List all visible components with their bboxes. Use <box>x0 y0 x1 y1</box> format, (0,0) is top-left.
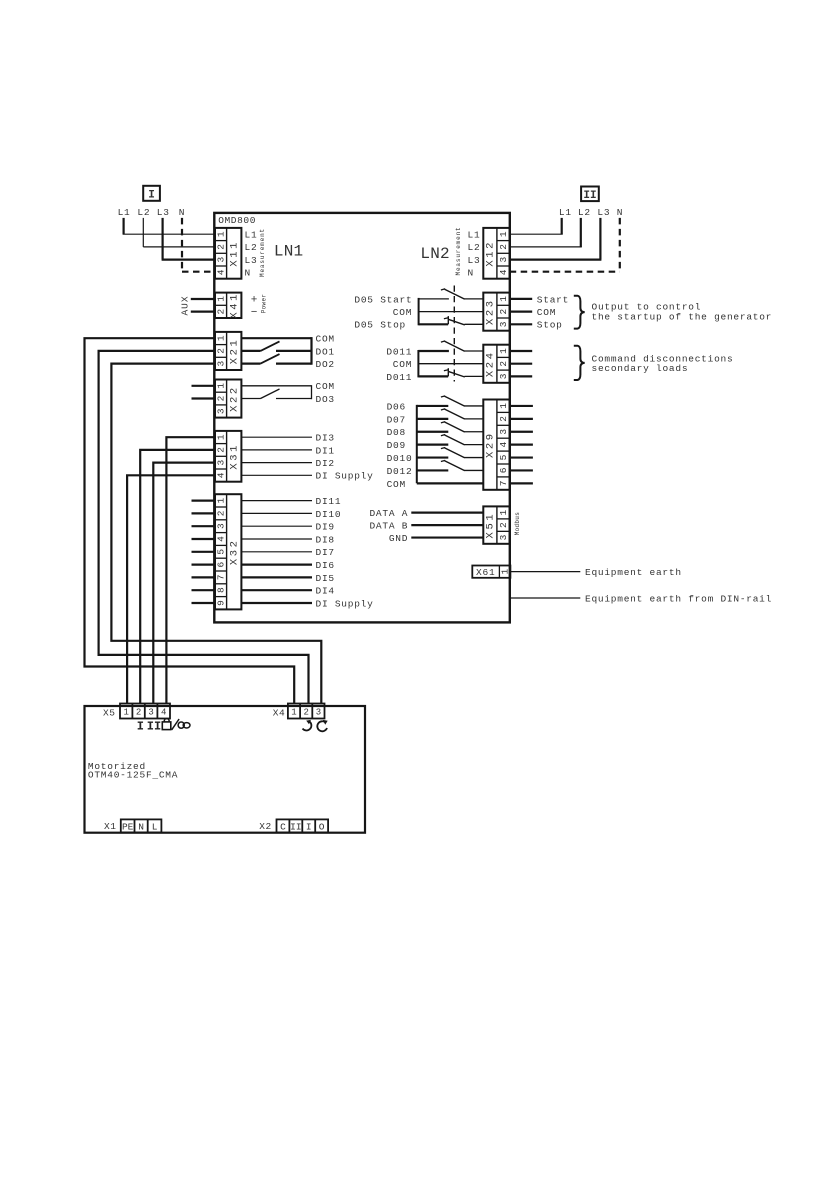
label LN1 <box>274 243 303 261</box>
X24 external stub 1 <box>510 350 533 352</box>
svg-text:4: 4 <box>161 708 166 718</box>
svg-text:DI Supply: DI Supply <box>316 598 374 609</box>
svg-text:secondary loads: secondary loads <box>592 363 689 374</box>
X32 line DI7 <box>241 547 334 558</box>
X29 contact wiring D07 <box>417 418 449 420</box>
mechanical link dashed (X23/X24) <box>453 286 455 382</box>
label D07 (X29) <box>387 414 406 425</box>
svg-text:COM: COM <box>387 479 406 490</box>
svg-text:X2: X2 <box>259 821 271 832</box>
terminal block X22 <box>215 380 241 418</box>
svg-text:X32: X32 <box>228 538 240 565</box>
svg-text:−: − <box>251 307 258 319</box>
svg-text:Stop: Stop <box>537 320 563 331</box>
X51 wire DATA B <box>369 521 483 532</box>
X32 stub DI5 <box>192 576 216 578</box>
X32 stub DI9 <box>192 525 216 527</box>
X51 wire DATA A <box>369 508 483 519</box>
label D011 (bottom) <box>386 372 412 383</box>
X32 line DI5 <box>241 573 334 584</box>
label D010 (X29) <box>387 453 413 464</box>
svg-text:COM: COM <box>316 334 335 345</box>
svg-text:DI8: DI8 <box>316 534 335 545</box>
wire equipment earth <box>510 571 580 573</box>
svg-text:D05 Start: D05 Start <box>354 294 412 305</box>
label OMD800 <box>218 215 256 226</box>
svg-text:2: 2 <box>215 395 226 401</box>
svg-text:DI9: DI9 <box>316 522 335 533</box>
wire L3 to X11-3 <box>162 218 216 260</box>
svg-text:L: L <box>152 822 158 833</box>
svg-text:3: 3 <box>498 534 509 540</box>
AUX label <box>180 295 191 315</box>
X24 bottom contact wiring <box>418 375 448 377</box>
svg-text:DATA B: DATA B <box>369 521 408 532</box>
X32 stub DI11 <box>192 500 216 502</box>
terminal strip X2 C/II/I/O <box>277 819 329 832</box>
wire N dashed to X11-4 <box>182 218 215 272</box>
X32 stub DI8 <box>192 538 216 540</box>
X29 external stub 4 <box>510 444 533 446</box>
X29 external stub 2 <box>510 418 533 420</box>
X29 external stub 6 <box>510 469 533 471</box>
label COM (X21) <box>316 334 335 345</box>
svg-text:1: 1 <box>215 231 226 237</box>
X23 external stub Start <box>510 294 569 305</box>
svg-text:L2: L2 <box>245 242 258 253</box>
svg-text:4: 4 <box>498 442 509 448</box>
svg-text:3: 3 <box>215 408 226 414</box>
X23 COM wire <box>419 311 484 313</box>
brace command disconnections <box>574 346 585 380</box>
svg-text:X31: X31 <box>228 443 240 470</box>
svg-text:Power: Power <box>261 294 268 314</box>
contact D08 <box>441 422 483 432</box>
svg-text:N: N <box>138 822 144 833</box>
label Power <box>261 294 268 314</box>
label DO1 <box>316 346 335 357</box>
svg-text:3: 3 <box>215 523 226 529</box>
svg-text:DI6: DI6 <box>316 560 335 571</box>
svg-text:6: 6 <box>215 561 226 567</box>
wire to X22-1 <box>192 385 216 387</box>
wire AUX - <box>191 311 215 313</box>
svg-text:2: 2 <box>498 244 509 250</box>
svg-text:DI4: DI4 <box>316 586 335 597</box>
terminal strip X5 <box>120 704 170 719</box>
wire equipment earth from DIN-rail <box>510 597 581 599</box>
svg-text:2: 2 <box>215 309 226 315</box>
X23 external stub Stop <box>510 320 563 331</box>
label COM (X23) <box>393 307 412 318</box>
svg-text:2: 2 <box>498 522 509 528</box>
svg-text:Equipment earth: Equipment earth <box>585 567 682 578</box>
X31 line DI Supply <box>241 471 373 482</box>
svg-text:4: 4 <box>215 472 226 478</box>
svg-text:OTM40-125F_CMA: OTM40-125F_CMA <box>88 770 178 781</box>
X32 line DI6 <box>241 560 334 571</box>
X29 contact wiring D010 <box>417 456 449 458</box>
svg-text:AUX: AUX <box>180 295 191 315</box>
X24 left bus bar <box>417 350 419 377</box>
svg-text:X29: X29 <box>484 431 496 458</box>
OMD800 controller box <box>214 213 510 623</box>
svg-text:9: 9 <box>215 600 226 606</box>
label D09 (X29) <box>387 440 406 451</box>
svg-text:3: 3 <box>148 708 153 718</box>
svg-text:L3: L3 <box>468 255 481 266</box>
X29 contact wiring D012 <box>417 469 449 471</box>
relay contact group X21 COM/DO1/DO2 <box>241 337 311 365</box>
X32 stub DI10 <box>192 512 216 514</box>
svg-text:2: 2 <box>215 447 226 453</box>
svg-text:Equipment earth from DIN-rail: Equipment earth from DIN-rail <box>585 593 772 604</box>
svg-text:1: 1 <box>215 434 226 440</box>
X31 line DI3 <box>241 433 334 444</box>
svg-text:3: 3 <box>316 708 321 718</box>
svg-text:1: 1 <box>498 403 509 409</box>
label Equipment earth from DIN-rail <box>585 593 772 604</box>
wire L3 to X12-3 <box>510 218 602 260</box>
label X4 <box>273 707 285 718</box>
wire X21-1 to X4-1 <box>85 338 295 703</box>
svg-text:DI11: DI11 <box>316 496 342 507</box>
wire X31-2 to X5-2 <box>140 450 215 704</box>
wire L2 to X11-2 <box>143 218 215 247</box>
label D05 Stop <box>354 320 406 331</box>
svg-text:D05 Stop: D05 Stop <box>354 320 406 331</box>
contact D06 <box>441 396 483 406</box>
svg-text:X4: X4 <box>273 707 285 718</box>
svg-text:2: 2 <box>498 309 509 315</box>
label + <box>251 295 258 307</box>
X29 contact wiring D08 <box>417 431 449 433</box>
svg-text:X23: X23 <box>484 298 496 325</box>
svg-text:3: 3 <box>215 257 226 263</box>
svg-text:L3: L3 <box>157 207 170 218</box>
svg-text:4: 4 <box>215 269 226 275</box>
svg-text:N: N <box>245 268 251 279</box>
svg-text:4: 4 <box>215 536 226 542</box>
svg-text:D08: D08 <box>387 427 406 438</box>
svg-text:2: 2 <box>498 361 509 367</box>
node L2 (left) <box>137 207 150 218</box>
svg-text:DI7: DI7 <box>316 547 335 558</box>
svg-text:PE: PE <box>122 822 134 833</box>
contact D011 bottom <box>444 368 483 377</box>
label Equipment earth <box>585 567 682 578</box>
terminal block X21 <box>215 332 241 370</box>
svg-text:L2: L2 <box>468 242 481 253</box>
X32 line DI4 <box>241 586 334 597</box>
svg-text:Start: Start <box>537 294 569 305</box>
source I marker box <box>143 186 160 202</box>
wire X31-3 to X5-3 <box>153 463 215 704</box>
svg-text:X11: X11 <box>228 240 240 267</box>
label Measurement (LN2) <box>455 227 462 276</box>
wire AUX + <box>191 298 215 300</box>
label D012 (X29) <box>387 466 413 477</box>
X23 stop contact wiring <box>419 323 449 325</box>
X29 external stub 3 <box>510 431 533 433</box>
X24 COM wire <box>418 363 483 365</box>
node L1 (right) <box>559 207 572 218</box>
X29 left bus bar <box>416 405 418 483</box>
wire to X22-2 <box>192 397 216 399</box>
terminal block X51 <box>483 506 509 543</box>
label D05 Start <box>354 294 412 305</box>
label COM (X24) <box>393 359 412 370</box>
svg-text:DO3: DO3 <box>316 394 335 405</box>
label Measurement (LN1) <box>259 228 266 277</box>
label - <box>251 307 258 319</box>
svg-text:DO2: DO2 <box>316 359 335 370</box>
svg-text:7: 7 <box>498 480 509 486</box>
svg-text:1: 1 <box>215 383 226 389</box>
svg-text:D09: D09 <box>387 440 406 451</box>
X32 line DI Supply <box>241 598 373 609</box>
svg-text:D07: D07 <box>387 414 406 425</box>
svg-text:L1: L1 <box>559 207 572 218</box>
terminal block X24 <box>483 345 509 383</box>
X23 external stub COM <box>510 307 556 318</box>
wire X31-4 to X5-1 <box>127 475 215 703</box>
label D08 (X29) <box>387 427 406 438</box>
svg-text:I: I <box>306 822 312 833</box>
relay contact group X22 COM/DO3 <box>241 385 311 399</box>
svg-text:2: 2 <box>498 416 509 422</box>
svg-text:DI10: DI10 <box>316 509 342 520</box>
terminal strip X1 PE/N/L <box>121 819 162 832</box>
wire L1 to X11-1 <box>123 218 216 234</box>
svg-text:GND: GND <box>389 533 408 544</box>
svg-text:I: I <box>137 719 144 733</box>
X23 left bus bar <box>418 298 420 325</box>
motor rotation icon cw <box>303 720 312 731</box>
terminal block X61 <box>472 566 510 579</box>
svg-text:3: 3 <box>215 361 226 367</box>
node L2 (right) <box>578 207 591 218</box>
svg-text:1: 1 <box>498 296 509 302</box>
node N (left) <box>179 207 185 218</box>
wire X21-2 to X4-2 <box>99 351 309 704</box>
label COM (X22) <box>316 381 335 392</box>
svg-text:2: 2 <box>215 244 226 250</box>
svg-text:X22: X22 <box>228 385 240 412</box>
svg-text:5: 5 <box>215 549 226 555</box>
svg-text:DO1: DO1 <box>316 346 335 357</box>
node L3 (right) <box>597 207 610 218</box>
node N (right) <box>617 207 623 218</box>
X31 line DI1 <box>241 445 334 456</box>
svg-text:X5: X5 <box>103 707 115 718</box>
X24 external stub 2 <box>510 363 533 365</box>
svg-text:X21: X21 <box>228 338 240 365</box>
X51 wire GND <box>389 533 483 544</box>
svg-text:X51: X51 <box>484 512 496 539</box>
label DO3 <box>316 394 335 405</box>
svg-text:7: 7 <box>215 575 226 581</box>
terminal block X31 <box>215 431 241 482</box>
svg-text:DI5: DI5 <box>316 573 335 584</box>
svg-text:X41: X41 <box>228 292 240 319</box>
svg-text:N: N <box>468 268 474 279</box>
terminal block X23 <box>483 293 509 331</box>
svg-text:D012: D012 <box>387 466 413 477</box>
label DO2 <box>316 359 335 370</box>
contact D012 <box>441 460 483 470</box>
X29 external stub 5 <box>510 456 533 458</box>
node L3 (left) <box>157 207 170 218</box>
padlock icon <box>162 719 171 730</box>
svg-text:L3: L3 <box>597 207 610 218</box>
note: Command disconnections secondary loads <box>592 353 734 374</box>
svg-text:1: 1 <box>215 335 226 341</box>
label LN2 <box>420 245 449 263</box>
svg-text:5: 5 <box>498 454 509 460</box>
terminal block X12 <box>483 228 509 279</box>
note: Output to control the startup of the generator <box>592 302 773 323</box>
svg-text:L1: L1 <box>468 229 481 240</box>
svg-text:COM: COM <box>537 307 556 318</box>
motorized switch OTM40-125F_CMA box <box>85 706 366 833</box>
svg-text:1: 1 <box>215 296 226 302</box>
svg-text:3: 3 <box>498 321 509 327</box>
svg-text:X61: X61 <box>476 567 496 578</box>
svg-text:II: II <box>147 719 161 733</box>
svg-text:OMD800: OMD800 <box>218 215 256 226</box>
svg-text:COM: COM <box>393 359 412 370</box>
X32 line DI9 <box>241 522 334 533</box>
X29 contact wiring D09 <box>417 444 449 446</box>
label X2 <box>259 821 271 832</box>
svg-text:X12: X12 <box>484 240 496 267</box>
svg-text:1: 1 <box>498 231 509 237</box>
svg-text:8: 8 <box>215 587 226 593</box>
svg-text:LN2: LN2 <box>420 245 449 263</box>
contact D05 Stop <box>444 316 483 325</box>
svg-text:D010: D010 <box>387 453 413 464</box>
wire N dashed to X12-4 <box>510 218 620 272</box>
svg-text:L1: L1 <box>245 229 258 240</box>
X32 stub DI4 <box>192 589 216 591</box>
svg-text:Modbus: Modbus <box>514 512 521 536</box>
wire L1 to X12-1 <box>510 218 563 234</box>
svg-text:3: 3 <box>498 257 509 263</box>
svg-text:1: 1 <box>215 497 226 503</box>
svg-text:3: 3 <box>498 429 509 435</box>
svg-text:the startup of the generator: the startup of the generator <box>592 312 773 323</box>
svg-text:L2: L2 <box>137 207 150 218</box>
svg-text:DATA A: DATA A <box>369 508 408 519</box>
X32 stub DI Supply <box>192 602 216 604</box>
svg-text:1: 1 <box>291 708 296 718</box>
svg-text:2: 2 <box>215 510 226 516</box>
X29 external stub 1 <box>510 405 533 407</box>
source II marker box <box>581 187 599 203</box>
svg-text:3: 3 <box>498 373 509 379</box>
X32 stub DI7 <box>192 551 216 553</box>
X11 pin labels L1 L2 L3 N <box>245 229 258 278</box>
svg-text:L1: L1 <box>118 207 131 218</box>
svg-text:I: I <box>148 190 155 202</box>
X24 external stub 3 <box>510 375 533 377</box>
terminal block X11 <box>215 228 241 279</box>
svg-text:1: 1 <box>498 509 509 515</box>
svg-text:D06: D06 <box>387 401 406 412</box>
label Modbus <box>514 512 521 536</box>
label COM (X29) <box>387 479 406 490</box>
svg-text:DI1: DI1 <box>316 445 335 456</box>
svg-text:2: 2 <box>215 348 226 354</box>
svg-text:II: II <box>583 190 596 202</box>
svg-text:+: + <box>251 295 258 307</box>
svg-text:DI2: DI2 <box>316 458 335 469</box>
manual operation icon <box>172 719 190 730</box>
X32 line DI10 <box>241 509 341 520</box>
wire L2 to X12-2 <box>510 218 582 247</box>
svg-text:N: N <box>617 207 623 218</box>
svg-text:L3: L3 <box>245 255 258 266</box>
brace output to control <box>574 296 585 329</box>
contact D09 <box>441 435 483 445</box>
X12 pin labels L1 L2 L3 N <box>468 229 481 278</box>
svg-text:1: 1 <box>498 348 509 354</box>
svg-text:1: 1 <box>123 708 128 718</box>
wire X31-1 to X5-4 <box>166 437 215 703</box>
terminal block X41 <box>215 292 241 319</box>
svg-text:L2: L2 <box>578 207 591 218</box>
X29 contact wiring D06 <box>417 405 449 407</box>
svg-text:Measurement: Measurement <box>259 228 266 277</box>
contact D07 <box>441 409 483 419</box>
contact D010 <box>441 447 483 457</box>
svg-text:X1: X1 <box>104 821 116 832</box>
X32 stub DI6 <box>192 563 216 565</box>
contact D011 top <box>441 341 483 351</box>
svg-text:2: 2 <box>136 708 141 718</box>
svg-text:COM: COM <box>393 307 412 318</box>
svg-text:II: II <box>290 822 301 833</box>
terminal strip X4 <box>288 704 325 719</box>
svg-text:DI Supply: DI Supply <box>316 471 374 482</box>
label D06 (X29) <box>387 401 406 412</box>
svg-text:D011: D011 <box>386 372 412 383</box>
svg-text:COM: COM <box>316 381 335 392</box>
svg-text:1: 1 <box>500 568 511 574</box>
label Motorized OTM40-125F_CMA <box>88 761 178 781</box>
label X5 <box>103 707 115 718</box>
svg-text:X24: X24 <box>484 350 496 377</box>
X32 line DI11 <box>241 496 341 507</box>
X31 line DI2 <box>241 458 334 469</box>
svg-text:D011: D011 <box>386 346 412 357</box>
motor rotation icon ccw <box>317 720 327 731</box>
position marker II <box>147 719 161 733</box>
X32 line DI8 <box>241 534 334 545</box>
terminal block X29 <box>483 400 509 490</box>
svg-text:6: 6 <box>498 467 509 473</box>
X23 start contact wiring <box>419 298 449 300</box>
svg-text:O: O <box>319 822 325 833</box>
svg-text:DI3: DI3 <box>316 433 335 444</box>
X24 top contact wiring <box>418 350 449 352</box>
X29 COM wire <box>417 482 484 484</box>
terminal block X32 <box>215 494 241 609</box>
svg-text:LN1: LN1 <box>274 243 303 261</box>
label D011 (top) <box>386 346 412 357</box>
node L1 (left) <box>118 207 131 218</box>
